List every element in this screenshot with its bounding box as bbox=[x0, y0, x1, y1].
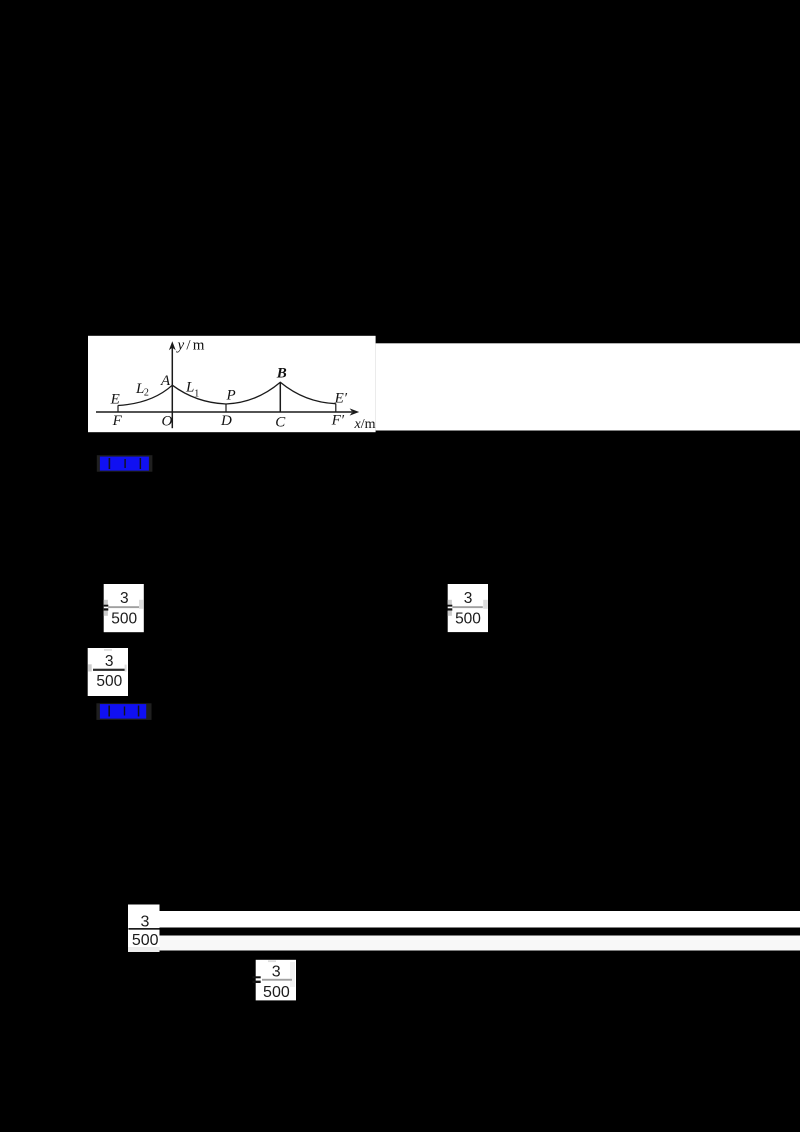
svg-text:L: L bbox=[185, 380, 194, 396]
svg-text:y/m: y/m bbox=[176, 338, 207, 354]
svg-text:O: O bbox=[162, 413, 173, 429]
svg-text:3: 3 bbox=[464, 590, 473, 607]
x-axis bbox=[96, 411, 352, 413]
svg-text:500: 500 bbox=[132, 932, 159, 949]
svg-text:P: P bbox=[226, 388, 236, 404]
tick P to D bbox=[225, 404, 227, 412]
svg-text:3: 3 bbox=[272, 964, 281, 981]
svg-text:D: D bbox=[220, 413, 232, 429]
svg-text:1: 1 bbox=[194, 389, 199, 400]
svg-text:3: 3 bbox=[105, 653, 114, 670]
diagram white box bbox=[88, 336, 376, 432]
svg-text:2: 2 bbox=[144, 388, 149, 399]
fraction 1: = 3/500 bbox=[104, 584, 144, 632]
svg-text:F: F bbox=[112, 413, 123, 429]
fraction 2: = 3/500 bbox=[448, 584, 488, 632]
diagram right extension band bbox=[376, 343, 800, 430]
svg-text:x/m: x/m bbox=[354, 417, 376, 432]
svg-text:500: 500 bbox=[96, 673, 122, 690]
line band right of fraction 4 (denominator row) bbox=[160, 936, 800, 951]
svg-text:E: E bbox=[110, 391, 120, 407]
fraction 5: = 3/500 bbox=[256, 960, 296, 1001]
blue tag 2 bbox=[100, 704, 146, 719]
inline fraction 4 patch: 3/500 bbox=[128, 905, 160, 953]
fraction 3: 3/500 bbox=[88, 648, 128, 696]
svg-text:500: 500 bbox=[263, 984, 290, 1001]
y-axis bbox=[171, 344, 173, 428]
y-axis arrowhead bbox=[169, 341, 176, 350]
blue tag 2 background bbox=[96, 703, 151, 720]
svg-text:A: A bbox=[160, 373, 171, 389]
svg-text:3: 3 bbox=[120, 590, 129, 607]
svg-text:3: 3 bbox=[141, 913, 150, 930]
x-axis arrowhead bbox=[350, 408, 360, 415]
tick E to F bbox=[117, 405, 119, 412]
svg-text:C: C bbox=[275, 414, 286, 430]
svg-text:F′: F′ bbox=[331, 413, 345, 429]
svg-text:B: B bbox=[276, 366, 287, 382]
blue tag 1 background bbox=[97, 455, 153, 472]
cable curve E-A-P-B-E' bbox=[118, 382, 336, 405]
blue tag 1 bbox=[100, 457, 149, 471]
tick E' to F' bbox=[335, 404, 337, 412]
svg-text:500: 500 bbox=[455, 610, 481, 627]
hanger B to C bbox=[279, 382, 281, 412]
svg-text:500: 500 bbox=[111, 610, 137, 627]
line band right of fraction 4 (numerator row) bbox=[160, 911, 800, 928]
svg-text:E′: E′ bbox=[334, 391, 348, 407]
